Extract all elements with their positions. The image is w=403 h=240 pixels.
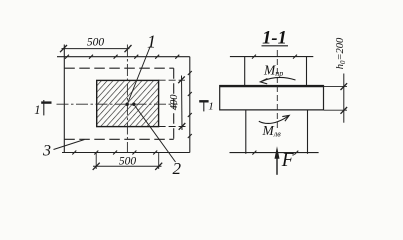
svg-text:Млв: Млв <box>262 123 282 139</box>
bottom boundary line with tick marks <box>62 152 190 154</box>
column face above slab left <box>244 57 246 87</box>
extension line top of 400 dimension <box>159 79 185 81</box>
svg-text:2: 2 <box>173 159 182 178</box>
tick on right boundary 3 <box>188 113 192 117</box>
node dot for leader 1 <box>126 103 129 106</box>
tick on top boundary 1 <box>65 55 69 59</box>
dimension line 400 (right side) <box>181 76 184 131</box>
tick on top boundary 6 <box>175 55 179 59</box>
extension line right of bottom 500 dimension <box>158 153 160 170</box>
svg-text:F: F <box>281 150 295 171</box>
node dot for leader 2 <box>132 103 135 106</box>
extension line bottom of h dimension <box>324 109 347 111</box>
svg-text:1: 1 <box>147 32 156 52</box>
tick bottom of h dimension <box>341 107 348 114</box>
dashed punching contour rectangle bottom edge <box>64 138 173 140</box>
svg-text:3: 3 <box>42 142 51 159</box>
dimension line 500 (bottom) <box>93 165 162 167</box>
extension line left of bottom 500 dimension <box>95 153 97 170</box>
section mark right: thick bar <box>199 100 208 102</box>
tick bottom of 400 dimension <box>179 123 186 130</box>
slab top edge (thick) <box>219 85 323 87</box>
tick top of 400 dimension <box>178 76 185 83</box>
moment arc lower (M lv) <box>259 116 288 123</box>
dimension line h0 (vertical) <box>343 74 345 123</box>
top ground line of section <box>230 56 313 58</box>
tick top of h dimension <box>341 83 348 90</box>
extension line top of h dimension <box>324 85 347 87</box>
svg-text:h0=200: h0=200 <box>335 37 347 69</box>
hatched column cross-section <box>97 80 159 126</box>
tick on top ground line 1 <box>252 55 256 59</box>
tick on bottom boundary 1 <box>72 151 76 155</box>
tick on top ground line 2 <box>293 55 297 59</box>
slab left edge <box>219 85 221 110</box>
tick on top boundary 3 <box>114 55 118 59</box>
top boundary line with tick marks <box>57 56 190 58</box>
tick on right boundary 1 <box>188 71 192 75</box>
section mark left: thick bar <box>41 101 51 103</box>
tick left of bottom 500 dimension <box>93 163 100 170</box>
svg-text:1: 1 <box>34 103 40 117</box>
slab bottom edge <box>219 109 323 111</box>
slab right edge <box>323 85 325 110</box>
tick on bottom boundary 3 <box>113 151 117 155</box>
title underline <box>262 45 289 47</box>
dashed punching contour rectangle right edge <box>173 68 175 139</box>
dashed punching contour rectangle top edge <box>64 67 173 69</box>
bottom base line of section <box>230 152 319 154</box>
tick on top boundary 2 <box>89 55 93 59</box>
tick left of top 500 dimension <box>60 45 67 52</box>
tick on top boundary 5 <box>155 55 159 59</box>
tick on right boundary 4 <box>188 134 192 138</box>
leader line to label 1 <box>128 47 151 104</box>
horizontal centre axis line <box>57 103 178 105</box>
moment arc upper (M pr) <box>262 77 296 81</box>
arrowhead of lower moment arc <box>282 115 289 121</box>
tick on bottom base line 2 <box>294 151 298 155</box>
left edge line of plan <box>63 45 65 153</box>
svg-text:1: 1 <box>208 101 214 113</box>
column face below slab right <box>307 110 309 154</box>
tick on bottom boundary 5 <box>153 151 157 155</box>
tick on right boundary 2 <box>188 92 192 96</box>
section mark right: stem <box>203 101 205 111</box>
column face above slab right <box>306 57 308 87</box>
extension line bottom of 400 dimension <box>159 126 186 128</box>
section mark left: stem <box>43 100 45 115</box>
right boundary line with tick marks <box>189 57 191 153</box>
column face below slab left <box>245 110 247 154</box>
tick on bottom base line 1 <box>252 151 256 155</box>
svg-text:500: 500 <box>87 37 105 49</box>
svg-text:Мпр: Мпр <box>263 63 283 79</box>
leader line to label 3 <box>54 140 85 150</box>
arrowhead of upper moment arc <box>260 79 267 84</box>
tick on bottom boundary 2 <box>94 151 98 155</box>
leader line to label 2 <box>134 105 176 163</box>
svg-text:400: 400 <box>169 94 180 111</box>
vertical centre axis line <box>126 45 128 153</box>
svg-text:500: 500 <box>119 156 137 168</box>
tick right of top 500 dimension <box>125 45 132 52</box>
force F arrow shaft <box>276 156 278 175</box>
tick on bottom boundary 4 <box>132 151 136 155</box>
vertical centre axis of section <box>276 50 278 128</box>
dimension line 500 (top) <box>62 48 130 50</box>
tick right of bottom 500 dimension <box>155 163 162 170</box>
force F arrowhead <box>275 146 280 159</box>
tick on top boundary 4 <box>134 55 138 59</box>
